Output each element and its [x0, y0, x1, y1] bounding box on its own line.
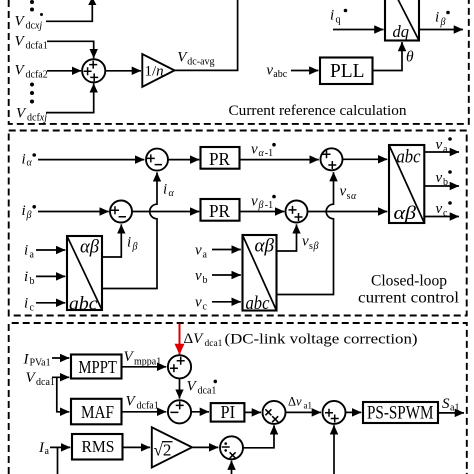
svg-text:Δv: Δv: [288, 394, 302, 408]
wire IPVa1 to MPPT: [52, 357, 69, 359]
controller block PR1: [201, 147, 240, 169]
svg-text:c: c: [30, 303, 35, 314]
wire Ia to RMS: [50, 446, 70, 448]
block PS-SPWM: [363, 402, 438, 423]
svg-text:i: i: [127, 235, 131, 251]
wire Ia branch down (cut off): [57, 447, 59, 474]
svg-text:dc-avg: dc-avg: [187, 56, 214, 67]
svg-text:mppa1: mppa1: [134, 357, 161, 368]
wire PR1 to summing junction C3: [240, 159, 319, 161]
wire output vb*: [424, 185, 459, 187]
svg-text:a: a: [203, 250, 208, 261]
dashed border of middle section box: [9, 131, 467, 316]
svg-text:dca1: dca1: [198, 386, 217, 397]
svg-text:i: i: [435, 10, 439, 26]
svg-text:dca1: dca1: [36, 377, 55, 388]
summing junction S1 (Vdc average): [82, 59, 105, 82]
wire ib input: [36, 275, 65, 277]
wire S1 to 1/n gain: [105, 70, 141, 72]
svg-text:i: i: [22, 151, 26, 167]
svg-text:-1: -1: [265, 148, 273, 159]
svg-text:ΔV: ΔV: [184, 331, 205, 347]
svg-text:abc: abc: [246, 293, 270, 314]
svg-text:Closed-loop: Closed-loop: [371, 273, 447, 290]
svg-text:(DC-link voltage correction): (DC-link voltage correction): [225, 332, 418, 348]
vertical ellipsis dots above Vdcxj: [30, 0, 43, 16]
summing junction C1: [146, 149, 168, 171]
wire PLL theta to dq block: [373, 42, 403, 71]
transform block alpha-beta/abc (voltages): [243, 235, 277, 314]
wire MPPT to summing junction B1: [122, 366, 167, 368]
gain block 1/n: [142, 54, 174, 87]
dashed border of bottom section box: [9, 323, 467, 474]
svg-text:v: v: [436, 137, 443, 153]
block MAF: [71, 399, 122, 425]
wire C1 to PR1: [168, 159, 199, 161]
svg-text:b: b: [30, 276, 35, 287]
transform block abc/alpha-beta (output): [389, 145, 424, 224]
wire dq to i-beta* output: [419, 29, 463, 31]
svg-text:dca1: dca1: [205, 339, 223, 349]
svg-text:current control: current control: [358, 290, 459, 307]
wire vb input: [212, 274, 241, 276]
transform block dq (cut off at top): [385, 0, 419, 41]
multiplier junction X: [263, 401, 286, 424]
wire C3 to abc transform: [343, 158, 388, 160]
block RMS: [72, 434, 123, 460]
svg-text:α: α: [351, 191, 357, 202]
svg-text:1/n: 1/n: [145, 64, 164, 80]
wire X to summing junction S: [286, 411, 322, 413]
wire B1 to B2: [179, 378, 181, 398]
wire B2 to PI: [191, 411, 209, 413]
svg-text:b: b: [203, 275, 208, 286]
svg-text:β: β: [258, 200, 264, 211]
wire i-beta* to summing junction C2: [38, 211, 109, 213]
svg-text:v: v: [251, 193, 258, 209]
red wire delta-Vdca1 correction into B1: [179, 324, 181, 355]
svg-text:αβ: αβ: [80, 236, 100, 257]
svg-text:PR: PR: [209, 149, 230, 169]
wire vs-beta feedforward to C4: [277, 224, 297, 251]
svg-text:i: i: [330, 8, 334, 24]
wire vs-alpha feedforward with hop to C3: [277, 172, 334, 294]
svg-text:v: v: [195, 295, 202, 311]
wire C4 to abc transform (passes under vs-alpha hop): [308, 211, 388, 213]
svg-text:PVa1: PVa1: [30, 357, 51, 368]
svg-text:v: v: [436, 170, 443, 186]
svg-text:dcfxj: dcfxj: [27, 113, 47, 124]
svg-text:v: v: [302, 234, 309, 250]
wire output va*: [424, 151, 459, 153]
svg-text:dcxj: dcxj: [26, 21, 43, 32]
summing junction C2: [110, 201, 132, 223]
wire Vdcfa2 to summing junction left: [47, 70, 81, 72]
svg-text:i: i: [24, 243, 28, 259]
svg-text:S: S: [442, 396, 450, 412]
svg-text:v: v: [195, 243, 202, 259]
block PLL: [320, 58, 373, 85]
svg-text:α: α: [169, 188, 175, 199]
svg-text:v: v: [340, 184, 347, 200]
svg-text:α: α: [27, 158, 33, 169]
wire Vdcfxj to summing junction bottom: [46, 83, 94, 112]
wire ic input: [36, 302, 65, 304]
svg-text:i: i: [24, 269, 28, 285]
svg-text:RMS: RMS: [82, 437, 115, 456]
svg-text:β: β: [26, 210, 32, 221]
svg-text:β: β: [313, 241, 319, 252]
svg-text:v: v: [195, 268, 202, 284]
dashed border of top section box: [9, 0, 469, 124]
svg-text:abc: abc: [273, 69, 287, 80]
wire PS-SPWM output: [438, 412, 464, 414]
svg-text:MAF: MAF: [81, 402, 114, 422]
wire Vdc-avg output going up: [175, 0, 238, 70]
wire from below into summing junction S: [333, 425, 335, 474]
wire PR2 to summing junction C4: [240, 211, 285, 213]
svg-text:PS-SPWM: PS-SPWM: [367, 403, 434, 423]
svg-text:PLL: PLL: [330, 61, 365, 82]
svg-text:MPPT: MPPT: [78, 357, 117, 377]
summing junction S: [323, 401, 346, 424]
wire va input: [212, 249, 241, 251]
transform block alpha-beta/abc (currents): [67, 236, 102, 315]
wire i-beta feedback to C2: [102, 224, 121, 257]
svg-text:v: v: [436, 201, 443, 217]
svg-text:θ: θ: [406, 49, 414, 66]
svg-text:a1: a1: [304, 400, 313, 410]
summing junction B2: [168, 400, 191, 423]
svg-text:s: s: [347, 191, 351, 202]
svg-text:abc: abc: [69, 294, 98, 315]
wire output vc*: [424, 216, 459, 218]
svg-text:s: s: [309, 241, 313, 252]
svg-text:q: q: [336, 15, 341, 26]
svg-text:i: i: [24, 296, 28, 312]
svg-text:i: i: [163, 182, 167, 198]
wire i-alpha* to summing junction C1: [38, 159, 144, 161]
wire vc input: [212, 301, 241, 303]
svg-text:a: a: [30, 250, 35, 261]
svg-text:a: a: [45, 446, 50, 457]
svg-text:PI: PI: [221, 402, 236, 422]
wire sqrt2 to divider D: [192, 446, 218, 448]
svg-text:αβ: αβ: [394, 203, 417, 224]
wire Vdcfa1 to summing junction top: [47, 41, 94, 58]
svg-text:β: β: [132, 241, 138, 252]
svg-text:αβ: αβ: [255, 235, 275, 256]
wire Vdcxj to top: [46, 4, 92, 21]
svg-text:√2: √2: [154, 441, 172, 460]
svg-text:dcfa2: dcfa2: [26, 70, 48, 81]
svg-text:v: v: [251, 142, 258, 158]
red label delta-Vdca1: [184, 331, 223, 349]
svg-text:PR: PR: [209, 201, 230, 221]
svg-text:c: c: [203, 302, 208, 313]
wire vabc to PLL: [291, 70, 318, 72]
svg-text:β: β: [440, 17, 446, 28]
svg-text:c: c: [443, 208, 448, 219]
divider junction D: [220, 436, 243, 459]
svg-text:α: α: [259, 148, 265, 159]
wire S to PS-SPWM: [346, 411, 362, 413]
svg-text:dq: dq: [393, 22, 410, 41]
svg-text:i: i: [22, 203, 26, 219]
wire D up into multiplier X: [243, 425, 274, 448]
summing junction C4: [286, 201, 308, 223]
wire MAF to B2: [122, 411, 167, 413]
block MPPT: [71, 355, 122, 379]
wire Vdca1 to MPPT: [52, 376, 69, 378]
wire Vdca1 branch to MAF: [57, 377, 70, 412]
svg-text:Current reference calculation: Current reference calculation: [229, 102, 407, 119]
summing junction C3: [321, 148, 343, 170]
wire ia input: [36, 249, 65, 251]
svg-text:I: I: [23, 352, 30, 368]
svg-text:b: b: [443, 177, 448, 188]
controller block PI: [211, 402, 245, 422]
wire PI to multiplier X: [244, 411, 261, 413]
svg-text:dcfa1: dcfa1: [137, 401, 159, 412]
vertical ellipsis dots above Vdcfxj: [30, 83, 34, 104]
wire i-alpha feedback with hop over row2: [102, 172, 157, 288]
svg-text:a: a: [443, 144, 448, 155]
summing junction B1: [168, 355, 191, 378]
wire iq* into dq block: [333, 29, 384, 31]
svg-text:-1: -1: [265, 200, 273, 211]
svg-text:abc: abc: [397, 147, 421, 168]
svg-text:dcfa1: dcfa1: [26, 41, 48, 52]
gain block sqrt2: [152, 427, 192, 467]
wire RMS to sqrt2 gain: [123, 446, 151, 448]
controller block PR2: [201, 199, 240, 221]
wire from below into divider D: [231, 461, 233, 474]
wire C2 to PR2: [132, 211, 199, 213]
